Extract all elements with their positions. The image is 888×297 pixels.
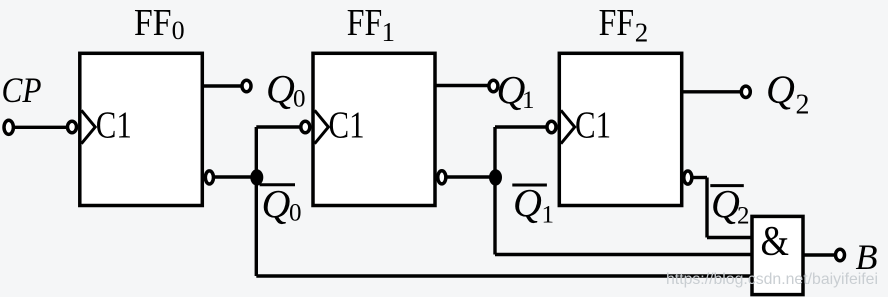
svg-text:Q: Q [766, 67, 795, 112]
flip-flop FF1 box [313, 53, 435, 205]
wire FF1 Qbar to junction [446, 175, 495, 178]
wire Qbar2 to AND gate [707, 236, 752, 239]
wire FF1 Q output [435, 84, 489, 87]
svg-text:0: 0 [293, 86, 306, 113]
svg-text:0: 0 [172, 16, 185, 45]
junction node Qbar1 [489, 169, 502, 185]
wire middle Qbar1 run to AND gate [495, 253, 752, 256]
svg-text:FF: FF [347, 2, 383, 44]
svg-text:1: 1 [542, 202, 555, 229]
wire junction down (Qbar0 to AND) [255, 177, 258, 277]
svg-text:C1: C1 [329, 105, 365, 147]
svg-text:https://blog.csdn.net/baiyifei: https://blog.csdn.net/baiyifeifei [666, 271, 878, 288]
flip-flop FF0 box [80, 53, 203, 205]
svg-text:2: 2 [737, 203, 750, 230]
svg-text:Q: Q [262, 182, 291, 227]
wire FF0 Qbar to junction [214, 175, 257, 178]
svg-text:1: 1 [382, 17, 396, 47]
wire to FF2 clock input [495, 125, 547, 128]
svg-text:CP: CP [2, 70, 42, 110]
svg-text:C1: C1 [96, 105, 132, 147]
CP input terminal [4, 120, 13, 134]
AND gate U1 box [752, 216, 803, 294]
clock input bubble FF2 [547, 121, 556, 132]
svg-text:2: 2 [635, 18, 649, 48]
label Qbar1 overline [512, 184, 547, 187]
wire bottom Qbar0 run to AND gate [256, 274, 752, 277]
terminal Q0 [242, 80, 251, 91]
wire FF2 Qbar right [692, 176, 707, 179]
terminal Q1 [489, 80, 498, 91]
wire CP to FF0 clock [14, 126, 68, 129]
wire AND output [803, 253, 835, 256]
svg-text:Q: Q [711, 182, 740, 227]
wire junction up to FF2 clock level [493, 127, 496, 177]
clock wedge FF0 [81, 110, 95, 143]
svg-text:Q: Q [266, 67, 295, 112]
wire junction up to FF1 clock level [255, 127, 258, 177]
FF1 Qbar bubble [438, 171, 446, 184]
svg-text:0: 0 [289, 200, 302, 227]
junction node Qbar0 [250, 169, 263, 185]
FF0 Qbar bubble [205, 171, 213, 184]
clock wedge FF1 [315, 110, 329, 143]
wire to FF1 clock input [256, 125, 300, 128]
clock input bubble FF0 [68, 121, 77, 132]
terminal Q2 [741, 86, 750, 97]
label Qbar2 overline [710, 184, 744, 187]
clock wedge FF2 [561, 110, 575, 143]
svg-text:2: 2 [796, 90, 810, 121]
svg-text:&: & [761, 219, 790, 265]
label Qbar0 overline [260, 183, 295, 186]
wire Qbar2 down [705, 178, 708, 238]
wire FF2 Q output [682, 90, 741, 93]
svg-text:FF: FF [134, 2, 172, 44]
wire junction down (Qbar1 to AND) [493, 177, 496, 255]
svg-text:FF: FF [599, 2, 635, 44]
clock input bubble FF1 [301, 121, 310, 132]
svg-text:Q: Q [513, 181, 542, 226]
svg-text:C1: C1 [575, 105, 611, 147]
svg-text:1: 1 [522, 87, 535, 114]
flip-flop FF2 box [559, 53, 681, 205]
FF2 Qbar bubble [684, 171, 692, 184]
terminal B [836, 249, 845, 260]
wire FF0 Q output [202, 84, 241, 87]
